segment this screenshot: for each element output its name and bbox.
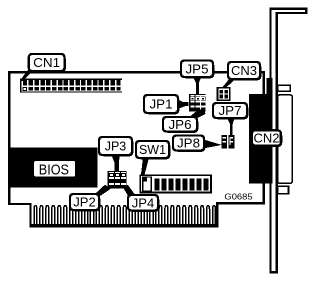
wire: JP8 callout leader arrow: [203, 139, 222, 148]
svg-text:G0685: G0685: [224, 192, 252, 202]
wire: JP7 callout leader: [227, 117, 235, 135]
label callout JP8: [173, 136, 205, 152]
edge connector base bar: [29, 224, 218, 228]
wire: CN3 callout leader: [222, 78, 237, 88]
CN2 D-sub bottom mounting tab: [278, 186, 289, 193]
wire: JP5 callout leader: [193, 76, 202, 94]
connector CN1 dual-row pin header: [20, 79, 122, 93]
svg-text:JP3: JP3: [105, 139, 127, 154]
label callout JP6: [163, 117, 198, 133]
svg-text:SW1: SW1: [139, 142, 166, 157]
label callout JP7: [213, 103, 248, 119]
wire: JP1 callout leader arrow: [177, 99, 189, 109]
label callout JP1: [144, 95, 179, 114]
label callout SW1: [136, 141, 170, 159]
svg-text:JP7: JP7: [219, 103, 242, 118]
wire: JP6 callout leader: [189, 109, 206, 118]
label callout CN1: [29, 54, 66, 72]
jumper block JP5/JP1/JP6 (3x2 header): [189, 94, 206, 111]
label callout CN2: [252, 130, 282, 147]
label callout JP3: [99, 137, 133, 156]
label callout CN3: [228, 62, 261, 80]
svg-text:CN3: CN3: [231, 63, 257, 78]
jumper block JP7/JP8 (2x3 header): [222, 135, 235, 148]
svg-text:CN2: CN2: [253, 131, 279, 146]
svg-text:BIOS: BIOS: [39, 162, 69, 178]
CN2 D-sub top mounting tab: [278, 85, 291, 91]
label callout JP4: [128, 195, 159, 212]
svg-text:CN1: CN1: [33, 55, 60, 70]
svg-text:JP2: JP2: [73, 195, 96, 210]
svg-text:JP4: JP4: [132, 195, 155, 210]
wire: JP4 callout leader: [123, 185, 137, 196]
connector CN3 (2x2 header): [217, 88, 229, 101]
BIOS label plate: [34, 161, 75, 177]
svg-text:JP5: JP5: [186, 61, 209, 76]
card board outline: [9, 72, 264, 225]
BIOS ROM chip: [10, 148, 97, 188]
CN2 upper clip: [266, 78, 272, 94]
svg-text:JP6: JP6: [169, 117, 192, 132]
label callout JP5: [181, 61, 214, 79]
wire: SW1 callout leader: [141, 157, 149, 176]
CN2 D-sub body: [278, 95, 293, 184]
mounting bracket: [271, 9, 307, 273]
jumper block JP3 (3x2 header): [107, 171, 126, 189]
label callout JP2: [70, 194, 100, 211]
connector CN2 body block: [249, 94, 273, 184]
wire: CN1 callout leader: [20, 69, 35, 81]
wire: JP3 callout leader: [111, 154, 120, 171]
wire: JP2 callout leader: [93, 185, 110, 196]
DIP switch SW1: [140, 175, 211, 192]
svg-text:JP1: JP1: [150, 97, 173, 112]
edge connector fingers: [34, 206, 215, 225]
svg-text:JP8: JP8: [177, 136, 200, 151]
